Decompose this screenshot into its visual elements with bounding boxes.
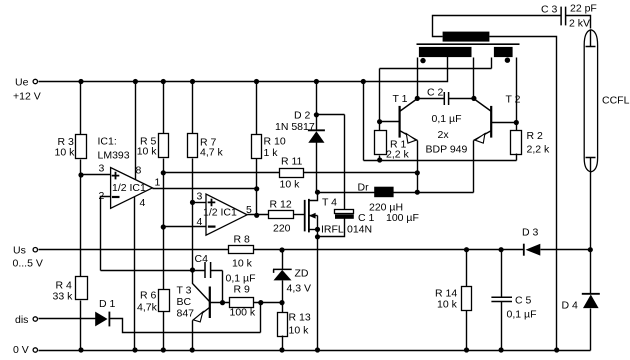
svg-text:Us: Us <box>13 245 26 257</box>
node pin3 divider <box>78 172 83 177</box>
lamp CCFL tube <box>584 30 597 172</box>
svg-text:R 11: R 11 <box>281 156 303 168</box>
node T4 source <box>315 227 320 232</box>
svg-text:C 2: C 2 <box>427 87 444 99</box>
svg-text:BDP 949: BDP 949 <box>426 144 468 156</box>
wire R11 lead from R5 node <box>164 172 280 174</box>
resistor R1 <box>375 131 387 155</box>
svg-text:T 2: T 2 <box>506 94 521 106</box>
wire secondary left terminal to C3 <box>433 16 562 37</box>
wire feedback winding right terminal <box>516 58 518 123</box>
resistor R14 <box>462 287 472 311</box>
transistor T4 IRFL014N mosfet <box>305 199 309 233</box>
svg-text:33 k: 33 k <box>53 291 74 303</box>
wire R9 right to ZD node <box>254 302 283 304</box>
wire R10 column from +12V <box>256 82 258 135</box>
wire comparator1 output pin1 <box>153 188 257 190</box>
diode D4 <box>582 293 600 295</box>
diode D1 <box>95 312 107 327</box>
svg-text:CCFL: CCFL <box>602 95 630 107</box>
svg-text:1: 1 <box>155 177 161 189</box>
svg-text:1N 5817: 1N 5817 <box>275 121 315 133</box>
node R8 ZD <box>279 247 284 252</box>
wire R13 leads <box>282 303 284 351</box>
wire pin8 column from +12V <box>135 82 137 180</box>
wire R6 bottom to 0V <box>163 312 165 351</box>
node Ue +12V terminal <box>33 79 37 83</box>
resistor R7 <box>188 134 198 158</box>
wire pin2 input route <box>101 197 111 271</box>
svg-text:D 3: D 3 <box>522 227 539 239</box>
wire primary right terminal to T2 collector <box>473 58 475 99</box>
node output2 <box>254 213 259 218</box>
svg-text:C 1: C 1 <box>358 212 375 224</box>
svg-text:R 8: R 8 <box>234 234 251 246</box>
svg-text:C4: C4 <box>195 253 209 265</box>
transistor T3 BC847 <box>209 287 211 319</box>
wire T1 emitter column to choke line <box>417 141 419 193</box>
node D2 C1 branch <box>314 112 319 117</box>
node C2 left T1 collector <box>415 96 420 101</box>
wire C4 right to T3 base node <box>222 271 224 303</box>
svg-text:IRFL: IRFL <box>321 224 344 236</box>
resistor R5 <box>159 134 169 158</box>
node output1 <box>254 186 259 191</box>
svg-text:0,1 µF: 0,1 µF <box>432 113 462 125</box>
svg-text:R 9: R 9 <box>234 284 251 296</box>
svg-text:014N: 014N <box>347 224 372 236</box>
svg-text:R 6: R 6 <box>140 290 157 302</box>
wire T2 emitter column to choke line <box>473 141 475 193</box>
wire Us line left of R8 <box>39 249 229 251</box>
svg-text:847: 847 <box>177 308 195 320</box>
wire emitter supply line y160 <box>364 82 517 161</box>
svg-text:3: 3 <box>197 191 203 203</box>
wire R5-R6 column <box>163 159 165 290</box>
wire R7 column to C4 node and T3 collector <box>193 159 210 302</box>
svg-text:C 5: C 5 <box>515 295 532 307</box>
wire primary left terminal to T1 collector <box>417 58 419 99</box>
svg-text:2,2 k: 2,2 k <box>386 149 410 161</box>
wire T4 source column to 0V <box>317 216 319 351</box>
svg-text:220 µH: 220 µH <box>369 202 403 214</box>
svg-text:0,1 µF: 0,1 µF <box>507 309 537 321</box>
resistor R10 <box>252 135 262 159</box>
svg-text:10 k: 10 k <box>437 299 458 311</box>
svg-text:D 4: D 4 <box>562 300 579 312</box>
svg-text:R 2: R 2 <box>527 130 544 142</box>
node T1 emitter choke <box>415 190 420 195</box>
svg-text:T 3: T 3 <box>177 285 192 297</box>
node dis terminal <box>33 317 37 321</box>
wire R7 column from +12V <box>192 82 194 134</box>
capacitor C4 <box>205 262 211 278</box>
svg-text:4: 4 <box>140 197 146 209</box>
node T4 drain <box>315 190 320 195</box>
svg-text:Dr: Dr <box>358 182 370 194</box>
svg-text:4,7 k: 4,7 k <box>200 147 224 159</box>
svg-text:dis: dis <box>15 314 28 326</box>
svg-text:R 10: R 10 <box>264 136 286 148</box>
inductor Dr 220uH choke <box>318 192 474 194</box>
wire R14 bottom to 0V <box>466 311 468 351</box>
node T1 base <box>377 119 382 124</box>
wire secondary right terminal to 0V <box>490 37 557 351</box>
svg-text:100 k: 100 k <box>230 307 256 319</box>
svg-text:ZD: ZD <box>295 268 309 280</box>
transformer core <box>417 43 520 45</box>
op-amp U1a 1/2 IC1 comparator <box>111 168 153 209</box>
wire R11 to T1 emitter node <box>304 172 418 174</box>
transistor T1 BDP949 <box>399 106 401 138</box>
svg-text:IC1:: IC1: <box>98 136 117 148</box>
wire R3 column from +12V <box>80 82 82 135</box>
diode D2 1N5817 <box>308 129 325 131</box>
svg-text:C 3: C 3 <box>541 4 558 16</box>
svg-text:Ue: Ue <box>15 77 29 89</box>
node comparator2 minus <box>161 224 166 229</box>
svg-text:2x: 2x <box>438 129 450 141</box>
svg-text:1 k: 1 k <box>264 147 279 159</box>
wire R4 column from pin3 node <box>80 175 82 277</box>
node C1 bottom <box>315 234 320 239</box>
wire C1 top branch from +12V column <box>317 115 345 210</box>
node C4 left <box>190 267 195 272</box>
wire T1 base line <box>380 121 400 123</box>
svg-text:BC: BC <box>177 296 192 308</box>
wire comparator2 pin3 input <box>193 202 207 204</box>
svg-text:4,3 V: 4,3 V <box>287 283 312 295</box>
resistor R3 <box>76 135 87 159</box>
resistor R13 <box>278 313 288 337</box>
svg-text:LM393: LM393 <box>98 150 130 162</box>
wire D4 anode to 0V <box>590 309 592 351</box>
wire ZD anode to R13 node <box>282 281 284 303</box>
svg-text:220: 220 <box>273 223 291 235</box>
wire T2 base line <box>492 122 517 124</box>
svg-text:100 µF: 100 µF <box>386 212 419 224</box>
svg-text:10 k: 10 k <box>137 146 158 158</box>
svg-text:22 pF: 22 pF <box>570 3 597 15</box>
resistor R6 <box>159 290 170 312</box>
svg-text:1/2 IC1: 1/2 IC1 <box>203 207 237 219</box>
transformer primary winding <box>419 47 472 57</box>
wire T1 base node and R1 top <box>379 122 381 131</box>
svg-text:10 k: 10 k <box>232 258 253 270</box>
wire feedback line R8 to D3 <box>254 249 524 251</box>
wire R2 leads <box>516 123 518 161</box>
wire feedback winding line y68 <box>380 58 492 122</box>
node C5 top <box>499 247 504 252</box>
capacitor C1 100uF electrolytic <box>335 210 354 214</box>
transformer Tr secondary winding <box>443 32 490 42</box>
node C2 right T2 collector <box>471 96 476 101</box>
diode D3 <box>523 244 525 256</box>
wire D1 cathode to R9-R13 node <box>110 303 261 333</box>
wire R10 bottom to output nodes <box>256 159 258 216</box>
svg-text:D 2: D 2 <box>294 110 311 122</box>
wire 0V ground rail <box>39 350 591 352</box>
node winding polarity dots <box>420 58 425 63</box>
capacitor C2 <box>444 92 448 105</box>
wire lamp bottom column <box>590 172 592 294</box>
wire D2 column from +12V <box>316 82 318 131</box>
node comparator2 plus <box>190 200 195 205</box>
svg-text:R 13: R 13 <box>289 312 311 324</box>
svg-text:5: 5 <box>246 204 252 216</box>
node R11 T1 emitter <box>415 170 420 175</box>
svg-text:T 1: T 1 <box>393 93 408 105</box>
op-amp U1b 1/2 IC1 comparator <box>206 194 247 235</box>
resistor R8 <box>229 246 254 254</box>
node T2 base R2 <box>514 120 519 125</box>
svg-text:2: 2 <box>99 190 105 202</box>
node +12V rail junctions <box>78 79 83 84</box>
wire comparator2 pin4 input from divider <box>164 226 207 228</box>
wire R12 to T4 gate <box>294 214 305 216</box>
wire feedback line D3 to lamp column <box>541 249 591 251</box>
svg-text:8: 8 <box>136 165 142 177</box>
wire pin4 column to 0V <box>134 197 136 351</box>
resistor R4 <box>76 277 88 300</box>
wire C3 to lamp top <box>566 16 591 29</box>
node D1 tap <box>258 300 263 305</box>
resistor R2 <box>511 131 522 155</box>
wire dis line <box>39 318 96 320</box>
transistor T2 BDP949 <box>490 106 492 138</box>
wire comparator2 output pin5 <box>248 214 269 216</box>
svg-text:+12 V: +12 V <box>13 91 41 103</box>
node R1 bottom <box>377 157 382 162</box>
svg-text:0...5 V: 0...5 V <box>13 258 43 270</box>
node lamp D3 D4 <box>588 247 593 252</box>
node T3 base <box>220 300 225 305</box>
wire C4 node line <box>101 270 193 272</box>
wire D2 anode to T4 drain node <box>316 143 318 193</box>
svg-text:T 4: T 4 <box>322 197 337 209</box>
wire R14 column <box>466 250 468 287</box>
svg-text:D 1: D 1 <box>99 298 116 310</box>
wire R1 bottom <box>379 156 381 161</box>
svg-text:R 12: R 12 <box>270 199 292 211</box>
node R5-R11 <box>161 170 166 175</box>
capacitor C5 <box>501 250 503 298</box>
transformer feedback winding <box>494 47 513 57</box>
svg-text:1/2 IC1: 1/2 IC1 <box>112 182 146 194</box>
wire R5 column from +12V <box>163 82 165 134</box>
capacitor C3 22pF <box>561 7 566 26</box>
wire R4 bottom to 0V <box>80 301 82 351</box>
svg-text:4: 4 <box>197 216 203 228</box>
zener diode ZD 4.3V <box>282 251 284 270</box>
wire R3 bottom to pin3 node <box>80 160 82 175</box>
node 0V terminal <box>33 348 37 352</box>
node ZD R13 <box>279 300 284 305</box>
resistor R12 <box>269 211 294 219</box>
node 0V rail junctions <box>78 347 83 352</box>
svg-text:10 k: 10 k <box>55 147 76 159</box>
node R14 top <box>464 247 469 252</box>
wire pin3 input line <box>81 174 111 176</box>
svg-text:4,7k: 4,7k <box>137 302 158 314</box>
wire C1 bottom to T4 source node <box>318 219 345 237</box>
svg-text:2,2 k: 2,2 k <box>527 144 551 156</box>
svg-text:10 k: 10 k <box>280 179 301 191</box>
resistor R11 <box>280 169 304 178</box>
wire +12V rail to transformer center tap <box>39 53 448 82</box>
svg-text:10 k: 10 k <box>289 325 310 337</box>
svg-text:0 V: 0 V <box>13 344 29 356</box>
wire T3 base to R9 <box>210 302 230 304</box>
resistor R9 <box>230 298 254 308</box>
svg-text:3: 3 <box>99 163 105 175</box>
svg-text:2 kV: 2 kV <box>569 18 590 30</box>
node Us terminal <box>33 248 37 252</box>
